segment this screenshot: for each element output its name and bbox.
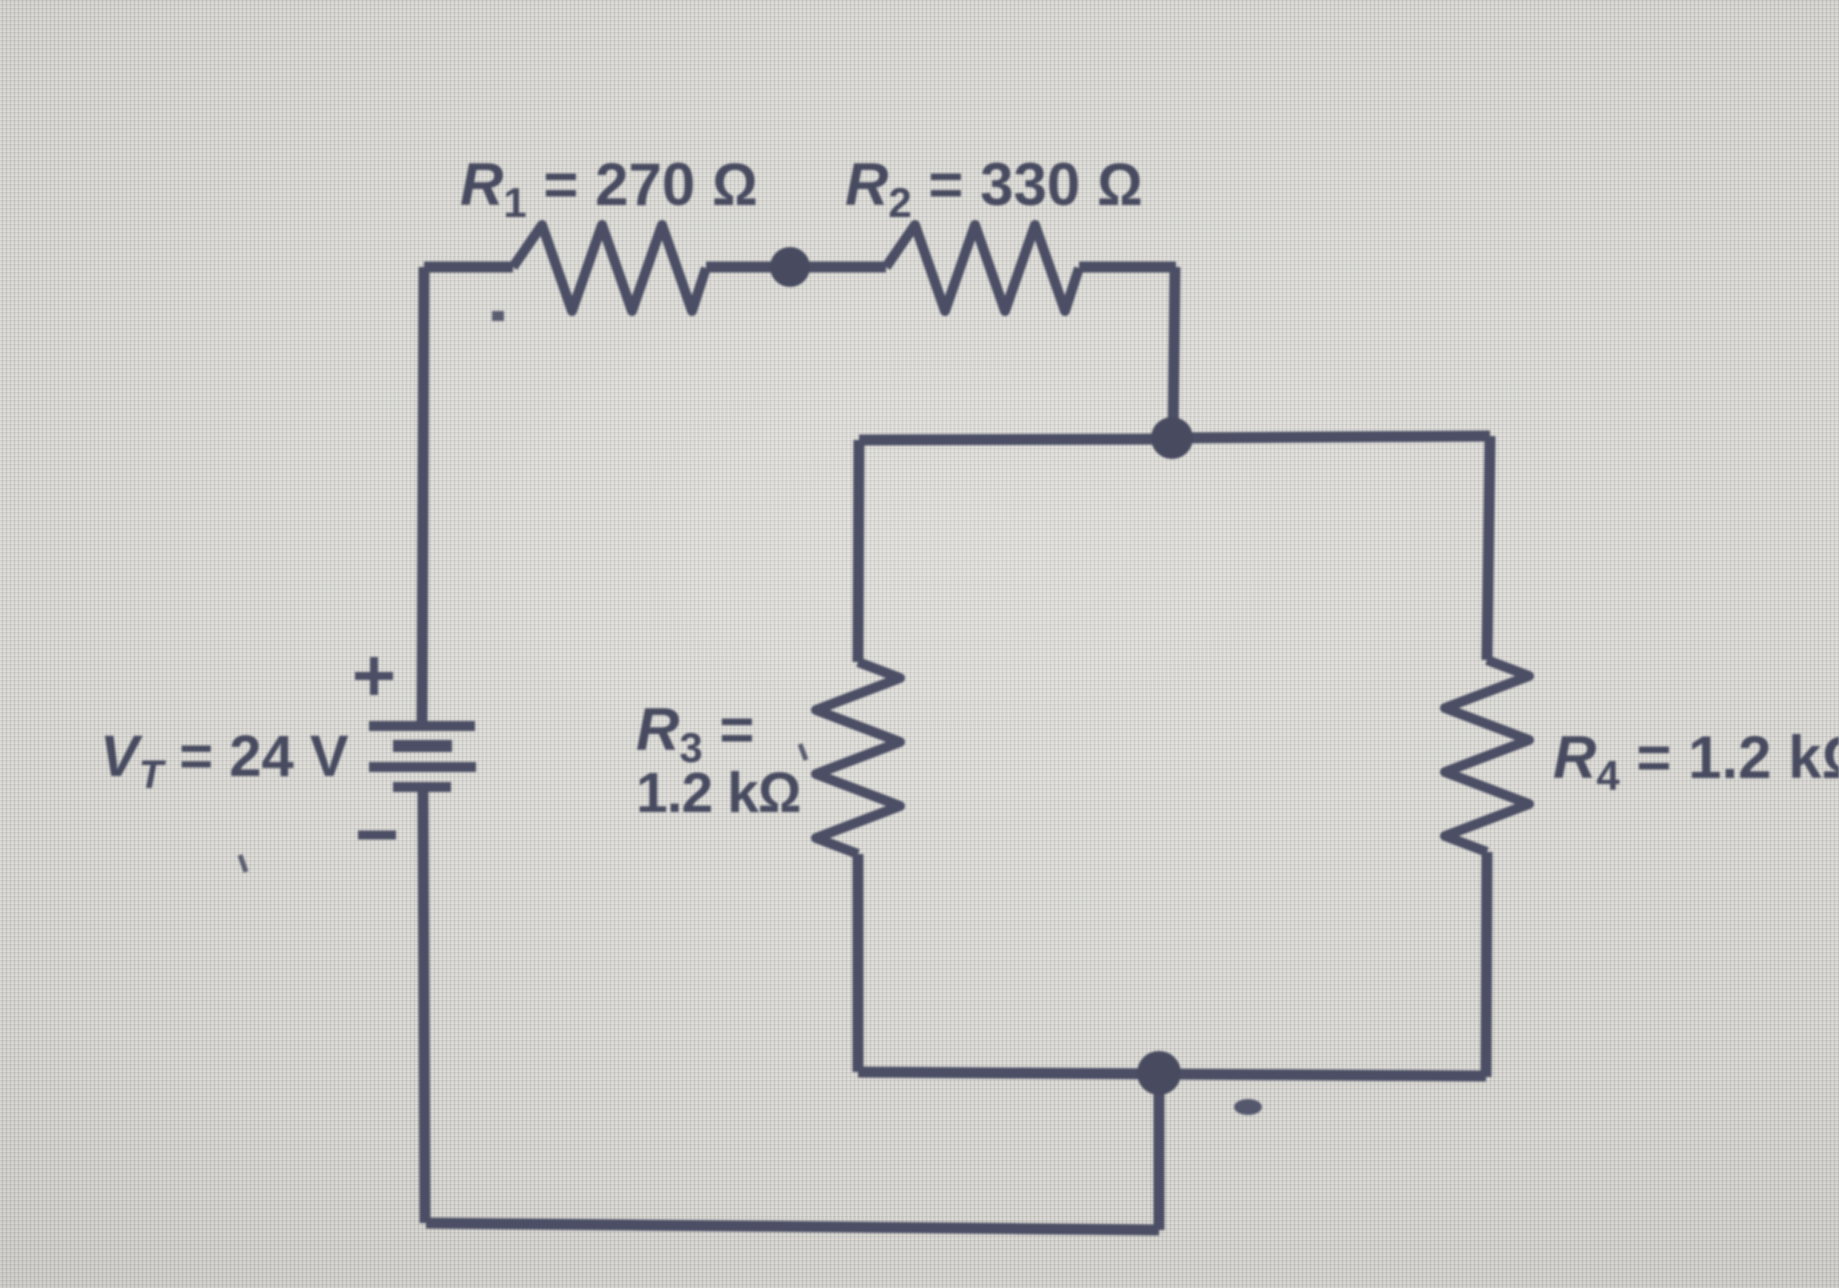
wire R4 branch right vertical lower [1486,852,1487,1077]
wire R1 to junction J1 [706,262,790,273]
node B (bottom junction of R3 and R4 branches) [1137,1051,1181,1095]
node A (top junction of R3 and R4 branches) [1151,417,1193,459]
wire R4 branch right vertical upper [1487,436,1490,660]
resistor R3 [816,662,900,854]
battery VT plate 1 (long, positive) [369,721,475,731]
wire R2 to top-right corner [1079,262,1176,273]
svg-text:VT = 24 V: VT = 24 V [100,724,349,797]
wire left vertical upper (top to battery plus) [422,267,424,723]
svg-text:R3 =: R3 = [636,696,754,771]
node J1 (junction between R1 and R2) [770,247,810,287]
speck artifact tick after R3 value [800,744,806,760]
speck artifact below R1 left end [492,311,504,321]
battery VT plate 3 (long) [369,762,476,772]
resistor R1 [513,225,706,311]
wire left vertical lower (battery minus to bottom) [423,792,425,1223]
wire right vertical down to node A [1173,267,1175,438]
wire node A to inner loop top [859,439,1172,440]
battery VT plate 2 (short) [393,740,452,752]
wire inner loop left vertical upper [858,440,859,662]
wire inner loop left vertical lower [853,854,864,1072]
wire inner loop bottom [858,1072,1159,1074]
svg-text:1.2 kΩ: 1.2 kΩ [636,761,801,825]
plus sign of battery VT [355,657,393,695]
wire node A to R4 top corner [1173,436,1490,438]
wire top-left horizontal (source to R1) [424,262,513,273]
svg-text:R2 = 330 Ω: R2 = 330 Ω [845,151,1143,226]
minus sign of battery VT [358,831,396,840]
battery VT plate 4 (short, negative) [393,782,451,792]
wire J1 to R2 [790,262,886,273]
resistor R4 [1445,660,1529,852]
resistor R2 [886,225,1079,311]
wire bottom outer [426,1223,1159,1230]
speck artifact right of node B [1234,1099,1262,1115]
wire R4 bottom to node B [1160,1074,1486,1076]
svg-text:R4 = 1.2 kΩ: R4 = 1.2 kΩ [1553,724,1839,799]
speck artifact left of battery [240,855,246,872]
svg-text:R1 = 270 Ω: R1 = 270 Ω [460,151,758,226]
wire node B stub down [1154,1074,1165,1230]
